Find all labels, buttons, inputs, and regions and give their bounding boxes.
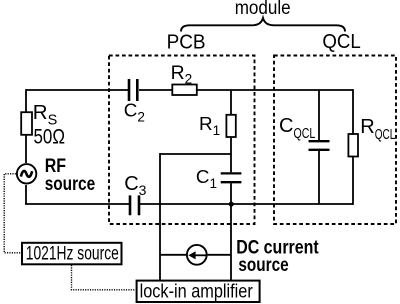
capacitor CQCL plates bbox=[309, 141, 330, 150]
capacitor C3 plates bbox=[130, 195, 139, 215]
dotted link RF source to 1021Hz source bbox=[4, 174, 21, 253]
wire vertical CQCL branch bbox=[318, 90, 320, 204]
wire top main horizontal bbox=[26, 89, 128, 91]
svg-text:C2: C2 bbox=[124, 99, 145, 124]
svg-text:lock-in amplifier: lock-in amplifier bbox=[140, 281, 254, 302]
DC current source circle bbox=[187, 245, 207, 265]
wire horizontal to lock-in branch bbox=[160, 153, 231, 155]
resistor RQCL bbox=[348, 134, 358, 157]
RF source sine symbol bbox=[21, 171, 32, 177]
1021Hz source box bbox=[22, 243, 122, 264]
lock-in amplifier box bbox=[137, 281, 260, 302]
svg-text:RQCL: RQCL bbox=[360, 116, 395, 143]
wire vertical branch R1/C1 bbox=[230, 90, 232, 281]
svg-text:R2: R2 bbox=[171, 62, 193, 86]
module brace bbox=[181, 18, 345, 32]
PCB dashed box bbox=[109, 56, 255, 225]
svg-text:R1: R1 bbox=[199, 113, 220, 138]
resistor RS bbox=[21, 112, 32, 135]
wire top between C2 and R2 bbox=[139, 89, 172, 91]
svg-text:1021Hz source: 1021Hz source bbox=[26, 243, 119, 264]
wire bottom main horizontal left of C3 bbox=[25, 203, 129, 205]
wire vertical lock-in branch bbox=[159, 153, 161, 281]
svg-text:50Ω: 50Ω bbox=[34, 125, 66, 149]
wire DC source horizontal left bbox=[160, 254, 186, 256]
RF source circle bbox=[17, 164, 36, 183]
svg-text:source: source bbox=[238, 255, 288, 276]
wire bottom main horizontal right of C3 bbox=[140, 203, 353, 205]
wire vertical RQCL branch bbox=[352, 89, 354, 205]
dotted link 1021Hz source to lock-in amplifier bbox=[72, 265, 136, 290]
svg-text:source: source bbox=[45, 174, 95, 195]
svg-text:CQCL: CQCL bbox=[279, 115, 315, 142]
DC current source arrow bbox=[191, 254, 207, 256]
wire top from R2 to right corner bbox=[197, 89, 353, 91]
svg-text:C1: C1 bbox=[196, 166, 217, 191]
wire DC source horizontal right bbox=[208, 254, 231, 256]
capacitor C1 plates bbox=[221, 173, 242, 182]
wire left vertical upper bbox=[25, 89, 27, 204]
svg-text:PCB: PCB bbox=[167, 31, 206, 54]
svg-text:QCL: QCL bbox=[322, 30, 360, 53]
resistor R1 bbox=[226, 115, 235, 137]
svg-text:C3: C3 bbox=[124, 173, 146, 198]
QCL dashed box bbox=[274, 56, 396, 225]
resistor R2 bbox=[172, 85, 197, 96]
capacitor C2 plates bbox=[129, 79, 137, 101]
junction dot A bbox=[229, 202, 234, 207]
